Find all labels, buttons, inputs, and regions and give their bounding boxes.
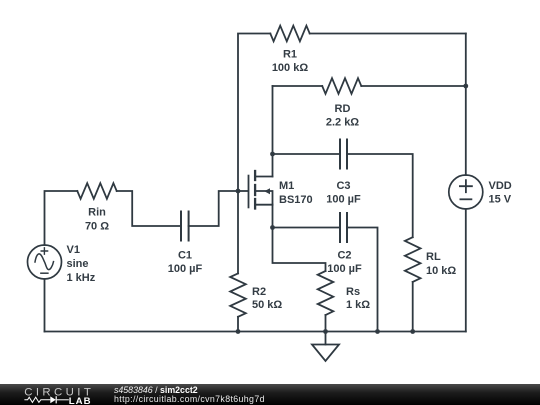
resistor Rin	[77, 183, 116, 232]
svg-text:M1: M1	[279, 180, 294, 192]
CircuitLab logo	[0, 384, 100, 405]
wire Rs bottom	[325, 315, 327, 332]
svg-text:100 µF: 100 µF	[327, 263, 362, 275]
svg-text:100 µF: 100 µF	[168, 263, 203, 275]
wire V1 top to Rin	[45, 191, 78, 245]
resistor R1	[270, 26, 309, 74]
svg-text:VDD: VDD	[489, 180, 512, 192]
svg-text:70 Ω: 70 Ω	[85, 221, 109, 233]
transistor M1	[249, 171, 313, 209]
svg-text:RL: RL	[426, 251, 441, 263]
resistor R2	[230, 273, 282, 316]
capacitor C2	[327, 213, 362, 275]
wire bottom rail	[45, 331, 466, 333]
svg-text:50 kΩ: 50 kΩ	[252, 299, 282, 311]
svg-text:V1: V1	[67, 244, 80, 256]
svg-text:Rs: Rs	[346, 286, 360, 298]
svg-text:LAB: LAB	[69, 397, 92, 405]
wire right rail to VDD	[465, 34, 467, 176]
wire C1 right to gate node	[189, 191, 238, 226]
svg-text:15 V: 15 V	[489, 194, 512, 206]
node junction RL-ground rail	[410, 329, 415, 334]
svg-text:1 kHz: 1 kHz	[67, 272, 96, 284]
svg-text:2.2 kΩ: 2.2 kΩ	[326, 117, 359, 129]
wire RD-left vertical to drain	[272, 86, 274, 177]
svg-text:100 µF: 100 µF	[326, 194, 361, 206]
footer bar	[0, 384, 540, 405]
svg-text:C2: C2	[337, 250, 351, 262]
wire Rin right to C1	[117, 191, 181, 226]
svg-text:C3: C3	[336, 180, 350, 192]
node junction Rs-ground	[323, 329, 328, 334]
wire top rail right	[310, 33, 466, 35]
wire RL bottom	[412, 282, 414, 332]
wire gate node to gate	[238, 190, 248, 192]
wire C3 right to RL	[347, 154, 413, 237]
wire C2 left	[273, 227, 341, 229]
resistor RL	[405, 237, 457, 282]
wire R2 bottom	[237, 317, 239, 332]
svg-text:100 kΩ: 100 kΩ	[272, 62, 309, 74]
svg-text:R2: R2	[252, 286, 266, 298]
voltage source V1	[28, 244, 96, 284]
wire VDD bottom	[465, 209, 467, 332]
node junction RD-VDD rail	[463, 84, 468, 89]
wire C3 left	[273, 153, 341, 155]
wire RD right	[361, 85, 466, 87]
svg-text:Rin: Rin	[88, 207, 106, 219]
wire V1 bottom	[44, 279, 46, 332]
svg-text:1 kΩ: 1 kΩ	[346, 299, 370, 311]
node junction C3 tap	[270, 152, 275, 157]
capacitor C3	[326, 140, 361, 206]
svg-text:C1: C1	[178, 250, 192, 262]
capacitor C1	[168, 212, 203, 276]
node junction R2-ground	[236, 329, 241, 334]
node junction C2 bottom	[375, 329, 380, 334]
wire RD left	[273, 85, 323, 87]
svg-text:sine: sine	[67, 258, 89, 270]
svg-text:BS170: BS170	[279, 194, 313, 206]
svg-text:R1: R1	[283, 49, 297, 61]
wire source down	[272, 205, 274, 228]
wire top rail from R1 left corner down to gate node	[238, 34, 270, 192]
node junction source	[270, 225, 275, 230]
resistor Rs	[318, 271, 371, 315]
svg-text:RD: RD	[335, 103, 351, 115]
wire R2 top	[237, 191, 239, 273]
wire Rs jog	[273, 228, 326, 272]
wire C2 right down	[347, 228, 378, 332]
resistor RD	[322, 78, 361, 128]
node junction gate	[236, 189, 241, 194]
ground	[312, 332, 339, 362]
voltage source VDD	[449, 175, 512, 209]
svg-text:10 kΩ: 10 kΩ	[426, 265, 456, 277]
